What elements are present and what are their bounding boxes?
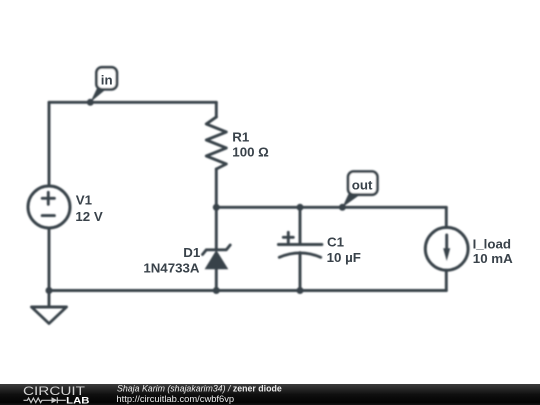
C1 bottom curved plate	[279, 253, 320, 257]
C1 plus sign	[283, 232, 293, 242]
ground symbol triangle	[32, 307, 67, 324]
svg-text:1N4733A: 1N4733A	[143, 261, 200, 276]
junction dot C1 bottom	[297, 287, 304, 294]
flag tail out	[342, 192, 361, 208]
svg-text:100 Ω: 100 Ω	[232, 145, 269, 160]
svg-text:V1: V1	[76, 192, 93, 207]
wire D1 bottom	[215, 269, 218, 290]
svg-text:http://circuitlab.com/cwbf6vp: http://circuitlab.com/cwbf6vp	[116, 393, 234, 404]
svg-text:12 V: 12 V	[75, 209, 102, 224]
voltage source V1 circle	[28, 186, 70, 228]
resistor R1 zigzag	[206, 117, 226, 169]
C1 top plate	[278, 243, 322, 246]
capacitor C1 bottom wire	[299, 253, 302, 291]
I_load arrow shaft	[445, 235, 448, 255]
svg-text:out: out	[352, 177, 373, 192]
junction dot node in	[87, 99, 94, 106]
wire top rail	[49, 101, 216, 104]
svg-text:D1: D1	[183, 245, 201, 260]
svg-text:R1: R1	[232, 129, 250, 144]
svg-text:Shaja Karim (shajakarim34) / z: Shaja Karim (shajakarim34) / zener diode	[117, 384, 282, 394]
V1 minus sign	[42, 214, 54, 217]
wire D1 top	[215, 207, 218, 250]
wire bottom rail	[49, 289, 446, 292]
junction dot ground node	[46, 287, 53, 294]
svg-text:10 µF: 10 µF	[327, 250, 361, 265]
svg-text:10 mA: 10 mA	[473, 251, 513, 266]
wire I_load bottom	[445, 270, 448, 290]
junction dot C1 top	[297, 204, 304, 211]
zener D1 triangle	[205, 250, 229, 269]
V1 plus sign	[42, 192, 54, 204]
current source I_load circle	[425, 227, 468, 270]
svg-text:C1: C1	[327, 235, 345, 250]
wire out rail corner down to I_load	[445, 207, 448, 227]
junction dot D1 top	[213, 204, 220, 211]
zener D1 cathode bar with bent ends	[203, 245, 231, 255]
flag tail in	[90, 86, 106, 102]
junction dot D1 bottom	[213, 287, 220, 294]
capacitor C1 top wire	[299, 207, 302, 244]
node flag box in	[96, 67, 117, 89]
logo resistor-diode glyph	[24, 397, 66, 403]
wire out rail	[216, 206, 446, 209]
junction dot node out	[339, 204, 346, 211]
svg-text:I_load: I_load	[473, 236, 511, 251]
svg-text:in: in	[101, 73, 113, 88]
svg-text:LAB: LAB	[66, 395, 90, 405]
node flag box out	[348, 172, 377, 195]
wire R1 bottom to out node	[215, 169, 218, 207]
I_load arrowhead	[443, 248, 450, 261]
wire ground stub	[48, 291, 51, 308]
wire left vertical (in to V1)	[48, 102, 51, 186]
wire top rail corner down to R1	[215, 102, 218, 117]
wire V1 bottom to ground node	[48, 228, 51, 291]
